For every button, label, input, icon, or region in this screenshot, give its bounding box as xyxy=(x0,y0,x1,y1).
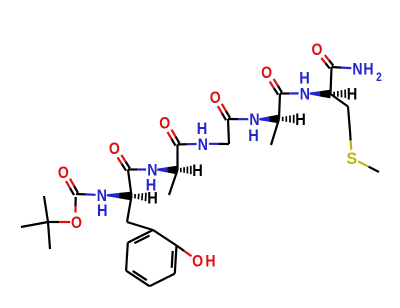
svg-text:H: H xyxy=(205,252,215,270)
svg-text:N: N xyxy=(300,85,310,103)
svg-text:O: O xyxy=(192,252,203,270)
svg-text:O: O xyxy=(58,164,69,182)
svg-text:H: H xyxy=(347,86,358,104)
svg-text:H: H xyxy=(146,177,157,195)
svg-text:H: H xyxy=(363,60,373,78)
svg-text:H: H xyxy=(299,70,310,88)
svg-text:N: N xyxy=(352,60,362,78)
svg-text:O: O xyxy=(159,114,170,132)
svg-text:O: O xyxy=(261,64,272,82)
svg-text:N: N xyxy=(198,136,208,154)
svg-text:H: H xyxy=(197,120,208,138)
svg-text:H: H xyxy=(97,202,108,220)
svg-text:S: S xyxy=(346,150,357,168)
svg-text:O: O xyxy=(210,89,221,107)
svg-text:O: O xyxy=(109,140,120,158)
svg-text:O: O xyxy=(71,214,82,232)
svg-text:2: 2 xyxy=(376,72,382,85)
svg-text:H: H xyxy=(248,127,259,145)
svg-text:H: H xyxy=(295,111,306,129)
svg-text:H: H xyxy=(192,162,203,180)
svg-text:O: O xyxy=(312,41,323,59)
